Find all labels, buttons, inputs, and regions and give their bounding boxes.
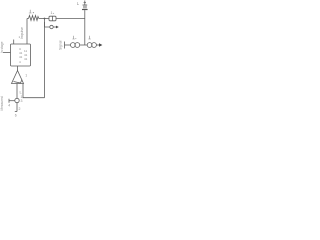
node bottom lead	[16, 103, 18, 112]
label R1	[29, 10, 32, 13]
IC bottom pin wire	[17, 66, 19, 71]
crystal top lead	[84, 1, 86, 6]
IC U1 box	[11, 44, 31, 66]
op-amp inner mark	[14, 80, 23, 84]
terminal tick bottom	[15, 111, 17, 113]
wire arrow lead	[53, 26, 56, 28]
resistor R1	[29, 16, 39, 21]
wire corner left vertical	[26, 19, 28, 45]
coupler K1 (two circles)	[71, 43, 76, 48]
coupler K2 (two circles)	[87, 43, 92, 48]
wire chain segment	[65, 44, 71, 46]
svg-text:1: 1	[21, 95, 23, 99]
wire tap branch	[45, 22, 50, 27]
label above K2	[88, 36, 90, 39]
wire bus vertical	[44, 19, 46, 98]
IC left pin wire	[3, 52, 11, 54]
svg-text:In stage: In stage	[0, 41, 4, 53]
svg-text:3: 3	[21, 99, 23, 103]
arrow chain output	[99, 43, 102, 47]
node N1 circle	[15, 98, 19, 102]
svg-text:41: 41	[19, 55, 23, 59]
svg-text:Signal: Signal	[58, 40, 62, 50]
crystal Y1 top tick	[84, 2, 86, 4]
terminal tick left	[8, 99, 10, 103]
label above K1	[72, 36, 74, 39]
wire crystal vertical	[84, 10, 86, 45]
terminal TP1	[50, 25, 53, 28]
svg-text:L: L	[20, 90, 23, 95]
component Z1 box	[49, 16, 56, 21]
svg-text:41: 41	[24, 57, 28, 61]
node left arm wire	[9, 100, 15, 102]
crystal Y1 top plate	[83, 4, 88, 6]
wire top rail	[27, 18, 29, 20]
arrow output tap	[56, 26, 59, 29]
wire chain out	[96, 44, 99, 46]
svg-text:2: 2	[19, 107, 21, 111]
junction dot	[44, 18, 46, 20]
op-amp A1	[12, 71, 24, 84]
wire chain segment	[80, 44, 88, 46]
svg-text:1: 1	[25, 74, 27, 78]
svg-text:Measured: Measured	[0, 96, 4, 110]
wire rail segment	[39, 18, 49, 20]
wire rail to crystal	[56, 18, 85, 20]
svg-text:L: L	[77, 1, 80, 6]
input terminal tick (mid chain)	[64, 42, 66, 49]
amp right lead	[23, 84, 45, 98]
svg-text:1: 1	[51, 11, 53, 15]
pin stub top-left	[13, 40, 15, 45]
IC internal text	[19, 47, 28, 64]
amp left lead	[16, 84, 18, 99]
svg-text:Impulse: Impulse	[20, 27, 24, 39]
crystal Y1 bottom plate	[82, 9, 88, 10]
svg-text:4: 4	[19, 60, 21, 64]
crystal Y1 body	[83, 6, 87, 9]
svg-text:6: 6	[15, 114, 17, 118]
svg-text:4: 4	[8, 104, 10, 108]
